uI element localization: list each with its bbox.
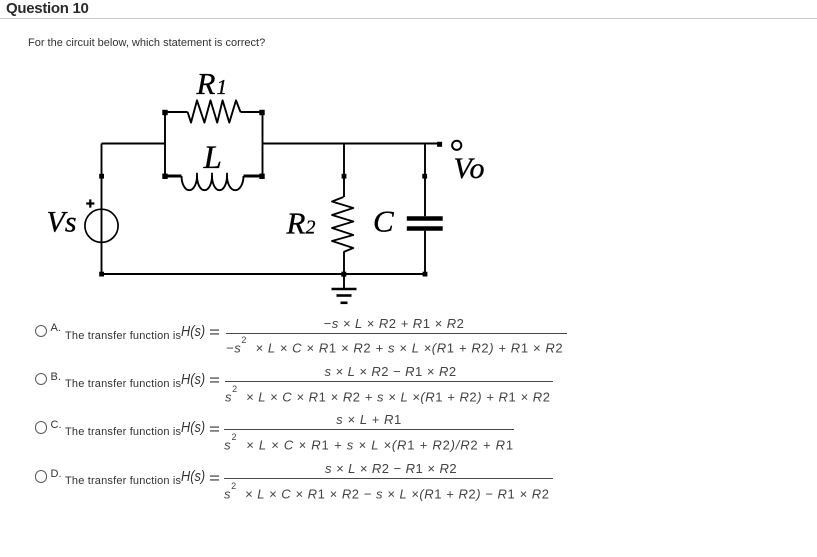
- svg-text:L: L: [203, 140, 222, 176]
- svg-text:Vs: Vs: [47, 206, 77, 239]
- svg-text:Vo: Vo: [454, 152, 486, 185]
- svg-text:R2: R2: [286, 205, 316, 240]
- svg-text:R1: R1: [196, 66, 227, 101]
- svg-text:C: C: [373, 204, 394, 239]
